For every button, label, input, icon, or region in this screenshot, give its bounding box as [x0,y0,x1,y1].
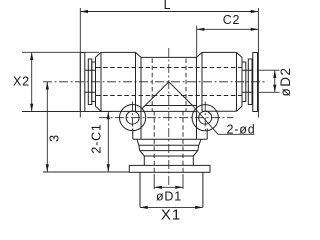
bore lines at rings left [85,70,96,92]
neck side edges [141,57,197,139]
dim X2 line [31,52,33,111]
arrow X2 top [30,52,33,60]
hole right inner [199,111,212,124]
arrow 2-C1 bottom [107,164,110,172]
left cap outline [96,52,142,111]
port band 1 [137,139,201,145]
arrow L right [251,10,259,13]
arrow 2-C1 top [107,112,110,120]
left outer flange ring [80,53,85,112]
arrow D1 right [175,186,183,189]
svg-text:L: L [164,0,172,12]
left collet ring [88,59,92,105]
right outer flange ring [253,53,258,112]
svg-text:2-ød: 2-ød [227,122,256,136]
svg-text:øD2: øD2 [278,66,293,96]
port band 2 [139,145,199,150]
right collet ring [248,59,252,105]
hole left vertical centerline [132,102,134,135]
left cap inner verticals [101,52,136,111]
right step ring [242,62,246,102]
svg-text:X1: X1 [161,207,181,224]
dim D1 extension right [182,174,184,189]
dim X2 extension top [22,51,99,53]
vertical port axis [168,48,170,185]
left step ring [92,62,96,102]
svg-text:X2: X2 [13,75,30,89]
arrow 3 top [46,82,49,90]
neck top edge [141,56,197,58]
hex flange [129,165,210,172]
hole left inner [126,111,139,124]
hole right outer [192,105,218,131]
right cap outline [197,52,243,111]
arrow D2 bottom [273,85,276,93]
dim L/C2 extension right [257,8,259,118]
port band 3 [140,151,198,156]
arrow D2 top [273,70,276,78]
arrow D1 left [154,186,162,189]
hole right vertical centerline [204,102,206,135]
upper bore hidden line left [151,59,153,112]
threaded stud sides [140,172,203,207]
funnel triangle [142,82,197,109]
arrow L left [80,10,88,13]
arrow X1 left [140,206,148,209]
dim 2-C1 line [107,112,109,173]
svg-text:øD1: øD1 [156,190,182,204]
dimensions [22,8,280,207]
body shoulder under circles [133,129,207,140]
dim L line [80,11,258,13]
object outlines [80,52,257,207]
dim D2 extension top [258,69,280,71]
arrow X1 right [195,206,203,209]
dim D2 extension bottom [258,91,280,93]
dim L extension left [79,8,81,118]
neck line between circles [101,110,197,112]
svg-text:2-C1: 2-C1 [90,123,104,153]
dim D1 line [154,186,183,188]
vertical bore hidden line left [153,111,155,174]
right cap inner verticals [202,52,237,111]
arrow X2 bottom [30,104,33,112]
through-bore hidden line lower [96,95,242,97]
holes horizontal centerline [99,117,234,119]
dim D1 extension left [153,174,155,189]
upper bore hidden line right [185,59,187,112]
centerlines (dash-dot) [43,48,265,185]
dim X1 line [140,206,203,208]
leader 2-d [193,106,255,135]
dim 3 / 2-C1 extension bottom [43,171,129,173]
bore lines at rings right [242,70,253,92]
dim C2 extension left [196,26,198,58]
vertical bore hidden line right [182,111,184,174]
hole left outer [120,105,146,131]
arrowheads [30,10,276,209]
svg-text:C2: C2 [223,13,241,27]
dim X2 / 2-C1 extension bottom [22,111,113,113]
horizontal main axis [43,81,265,83]
port neck [144,156,193,165]
dim C2 line [197,28,259,30]
hole circles [120,105,219,131]
through-bore hidden line upper [96,67,242,69]
arrow C2 left [197,28,205,31]
svg-text:3: 3 [47,134,61,142]
arrow C2 right [251,28,259,31]
hidden (dashed) lines [96,59,242,175]
dim D2 line [274,70,276,92]
dim 3 line [46,82,48,172]
arrow 3 bottom [46,164,49,172]
